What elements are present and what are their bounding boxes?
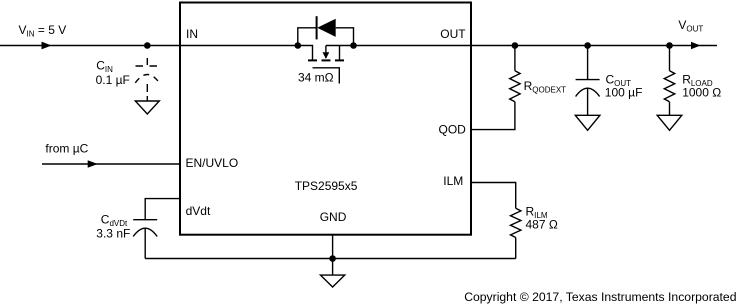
node FET source junction (350, 42, 357, 49)
body diode D1 triangle (317, 19, 336, 37)
pin label OUT (440, 27, 466, 41)
label TPS2595x5 (295, 179, 358, 193)
label RQODEXT (524, 79, 567, 95)
label 100 uF (605, 85, 643, 99)
node junction RQODEXT (512, 42, 519, 49)
body diode D1 cathode bar (316, 16, 318, 39)
wire from uC to EN/UVLO pin (42, 163, 180, 165)
resistor RQODEXT lead from rail (514, 46, 516, 71)
svg-text:from µC: from µC (45, 141, 88, 155)
ground symbol below COUT (575, 115, 600, 130)
resistor RLOAD zigzag (664, 71, 674, 102)
resistor RILM zigzag (511, 208, 521, 237)
node junction RLOAD (666, 42, 673, 49)
svg-text:Copyright © 2017, Texas Instru: Copyright © 2017, Texas Instruments Inco… (464, 290, 736, 304)
label CdVDt (101, 212, 128, 228)
label RLOAD (682, 73, 713, 89)
label 34 mOhm (298, 70, 334, 84)
capacitor CIN lead to ground (dashed) (146, 84, 148, 101)
wire OUT pin to VOUT (471, 45, 717, 47)
ground symbol below CIN (135, 101, 159, 114)
svg-text:OUT: OUT (440, 27, 466, 41)
transistor Q1 channel bars (308, 59, 344, 61)
callout line 34 mOhm (313, 68, 340, 84)
copyright notice (464, 290, 736, 304)
ground rail wire (145, 258, 516, 260)
resistor RLOAD lead from rail (669, 46, 671, 71)
label 3.3 nF (96, 227, 130, 241)
node junction GND rail (329, 255, 336, 262)
body diode D1 wire to source node (336, 28, 354, 46)
label CIN (96, 59, 113, 75)
wire RQODEXT to QOD pin (471, 102, 515, 130)
arrow VOUT direction (691, 42, 701, 49)
ground symbol below RLOAD (657, 115, 682, 130)
capacitor CIN curved bottom plate (dashed) (135, 75, 159, 83)
svg-text:487 Ω: 487 Ω (526, 218, 558, 232)
node FET drain junction (295, 42, 302, 49)
svg-text:TPS2595x5: TPS2595x5 (295, 179, 358, 193)
resistor RLOAD lead to ground (669, 102, 671, 116)
pin label IN (186, 27, 198, 41)
pin label ILM (443, 174, 463, 188)
svg-text:ILM: ILM (443, 174, 463, 188)
node junction CIN on input rail (144, 42, 151, 49)
arrow VIN direction (42, 42, 52, 50)
wire IN pin to FET drain (internal) (180, 46, 313, 60)
svg-text:100 µF: 100 µF (605, 85, 643, 99)
label COUT (606, 73, 632, 89)
capacitor COUT top plate (576, 79, 600, 81)
capacitor CdVdt top plate (133, 219, 157, 221)
label VOUT (678, 18, 703, 34)
capacitor CIN top plate (dashed) (136, 65, 158, 67)
wire FET source to OUT pin (internal) (326, 45, 471, 47)
body diode D1 riser from drain node (298, 28, 316, 46)
transistor Q1 body arrow (323, 46, 330, 59)
wire VIN input to IN pin (0, 45, 180, 47)
svg-text:dVdt: dVdt (186, 204, 211, 218)
capacitor COUT curved bottom plate (576, 88, 600, 96)
svg-text:VIN = 5 V: VIN = 5 V (19, 23, 67, 39)
pin label EN/UVLO (186, 156, 239, 170)
node junction COUT (584, 42, 591, 49)
label 0.1 uF (96, 73, 130, 87)
label RILM (526, 205, 548, 221)
pin label QOD (439, 123, 467, 137)
capacitor COUT lead from rail (587, 46, 589, 80)
pin label GND (320, 210, 347, 224)
wire ILM pin to RILM (471, 183, 516, 209)
label 1000 Ohm (682, 85, 721, 99)
svg-text:1000 Ω: 1000 Ω (682, 85, 721, 99)
capacitor CdVdt lead to ground rail (144, 228, 146, 258)
pin label dVdt (186, 204, 211, 218)
label VIN = 5 V (19, 23, 67, 39)
label from uC (45, 141, 88, 155)
svg-text:IN: IN (186, 27, 198, 41)
svg-text:0.1 µF: 0.1 µF (96, 73, 130, 87)
wire FET source stub down (339, 46, 341, 60)
arrow EN direction (88, 160, 98, 168)
label 487 Ohm (526, 218, 558, 232)
IC U1 TPS2595x5 box (180, 3, 471, 235)
resistor RILM lead to ground rail (515, 238, 517, 259)
svg-text:GND: GND (320, 210, 347, 224)
wire dVdt pin to CdVdt (145, 199, 180, 220)
wire GND pin down (332, 235, 334, 275)
svg-text:QOD: QOD (439, 123, 467, 137)
ground symbol GND (321, 275, 345, 287)
capacitor CIN (dashed, optional) lead from rail (146, 48, 148, 65)
svg-text:3.3 nF: 3.3 nF (96, 227, 130, 241)
capacitor CdVdt curved bottom plate (133, 228, 157, 236)
svg-text:EN/UVLO: EN/UVLO (186, 156, 239, 170)
resistor RQODEXT zigzag (510, 71, 520, 102)
capacitor COUT lead to ground (587, 88, 589, 115)
svg-text:34 mΩ: 34 mΩ (298, 70, 334, 84)
